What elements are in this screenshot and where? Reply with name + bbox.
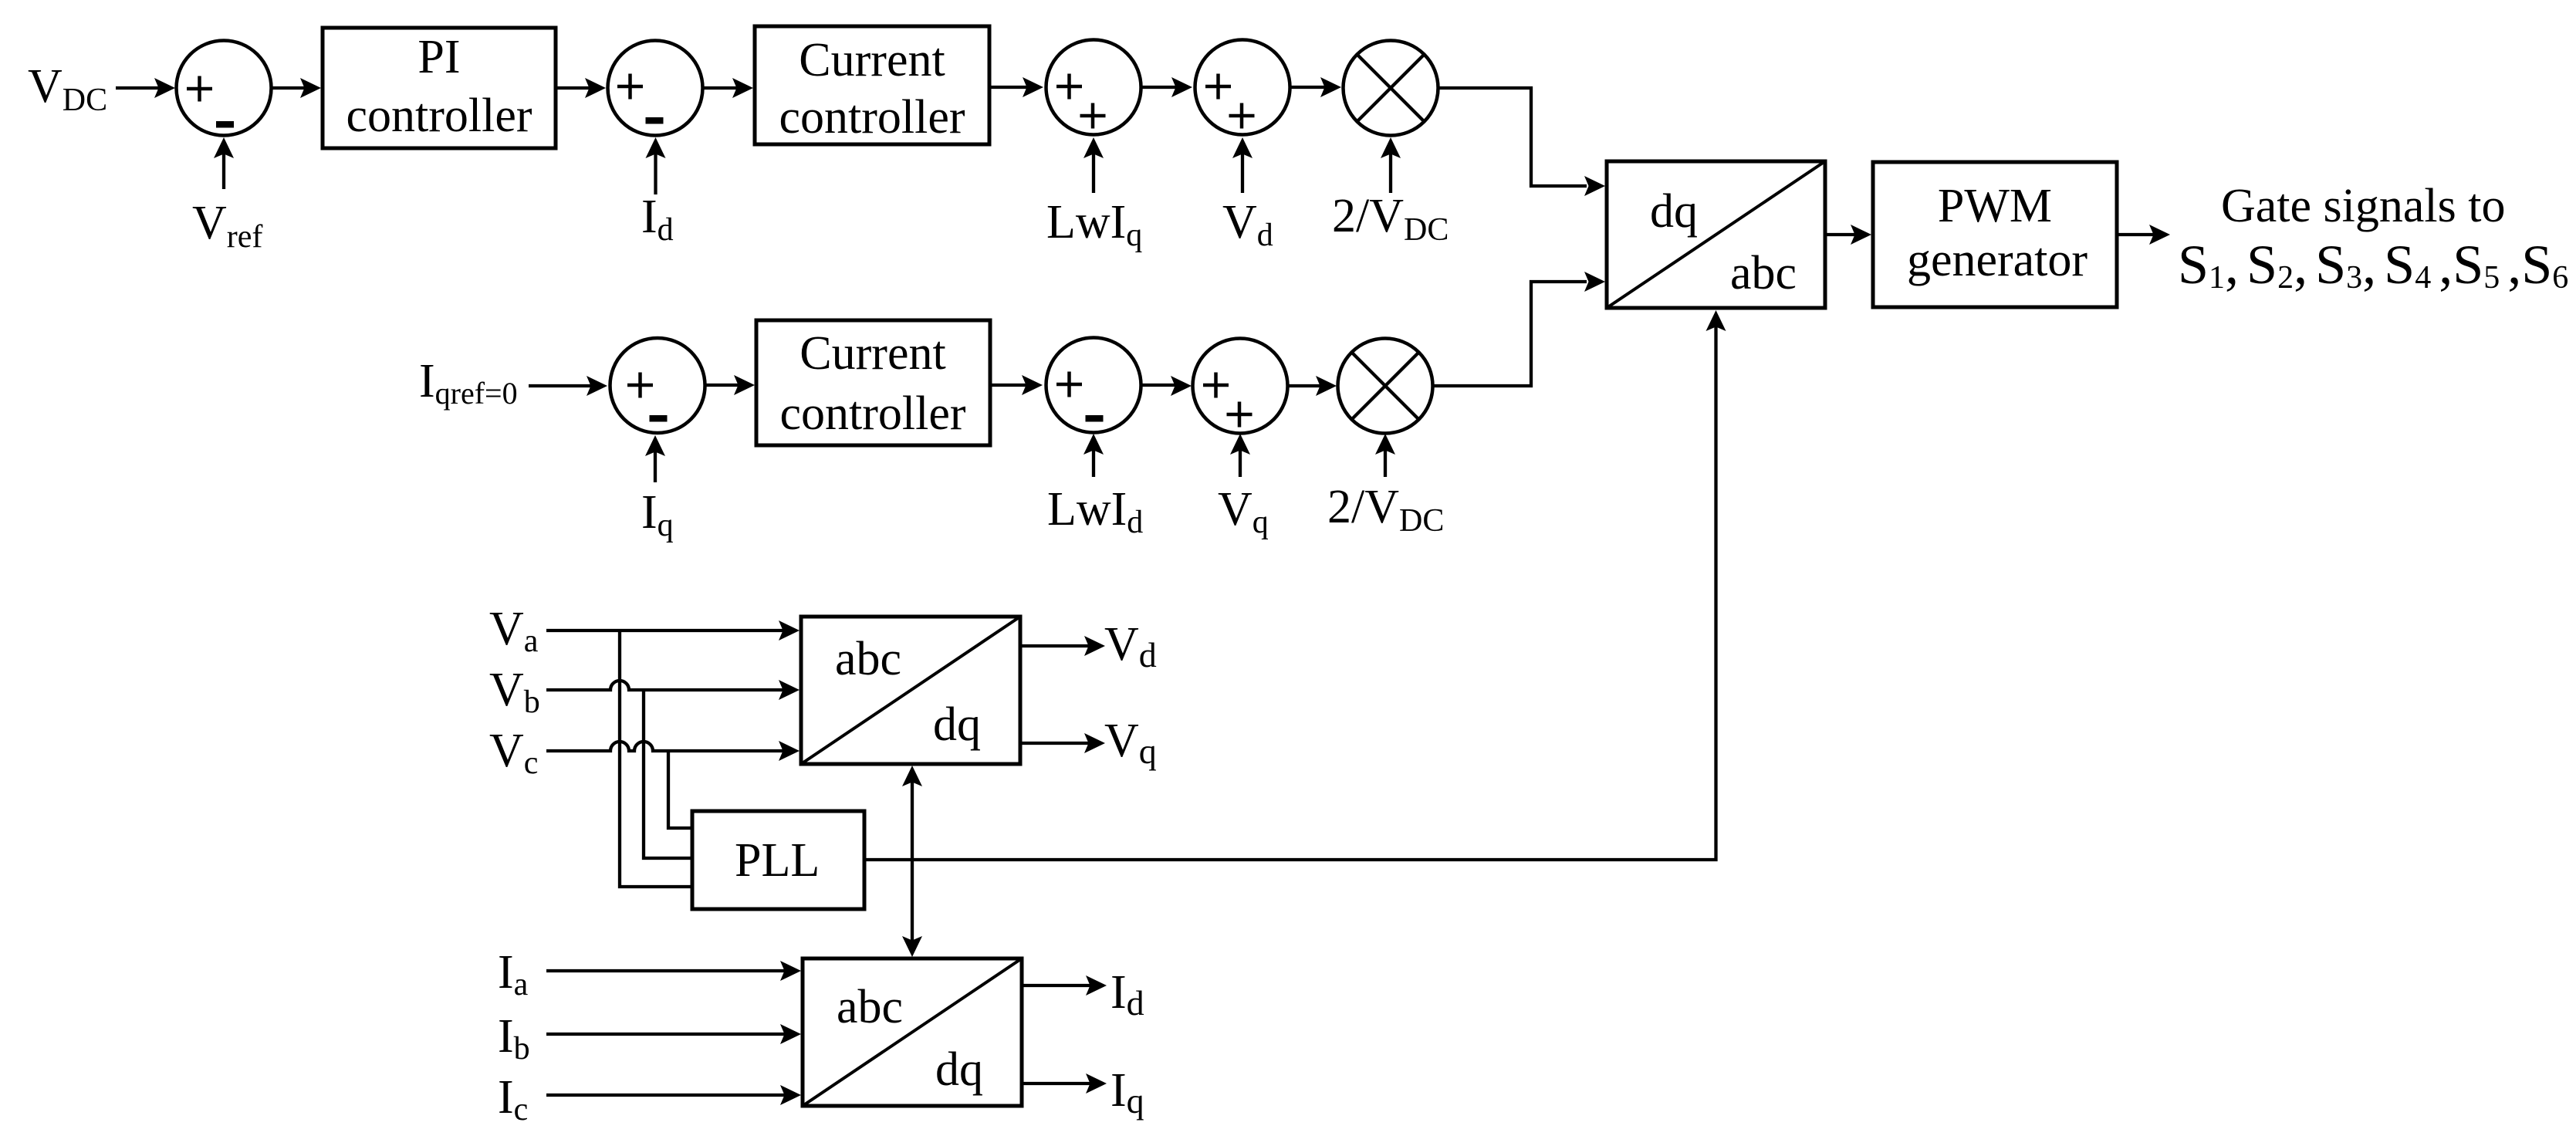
wire SC to multiplier M2 (1289, 384, 1330, 387)
svg-text:Vb: Vb (489, 664, 540, 720)
block PLL (692, 811, 864, 909)
svg-text:PI: PI (418, 31, 460, 83)
svg-text:VDC: VDC (28, 60, 107, 118)
node V_b label (489, 664, 540, 720)
node I_c label (498, 1071, 528, 1127)
wire tap V_a down to PLL (620, 630, 691, 887)
wire I_q into SA (654, 449, 657, 482)
multiplier M1 (1344, 41, 1438, 136)
svg-text:Vd: Vd (1104, 618, 1157, 674)
wire M1 to dq-abc transform (elbow) (1438, 88, 1587, 186)
wire V_ref into S1 (222, 142, 225, 189)
svg-text:Va: Va (489, 603, 539, 659)
svg-text:LwIq: LwIq (1046, 196, 1142, 253)
svg-text:Iq: Iq (641, 486, 674, 543)
wire theta double arrow between U2 and U3 (911, 778, 914, 945)
node I_a label (498, 946, 529, 1002)
wire I_qref to summer SA (529, 384, 593, 387)
wire PI controller to summer S2 (556, 86, 600, 90)
wire tap V_c down to PLL (668, 751, 691, 828)
node V_c label (489, 725, 538, 781)
summing junction SA (610, 338, 705, 433)
block PWM generator (1873, 162, 2117, 307)
summing junction SC (1193, 339, 1288, 434)
plus sign bottom in S3 (1080, 103, 1106, 129)
svg-text:Gate signals to: Gate signals to (2221, 180, 2506, 232)
wire current controller 1 to summer S3 (989, 86, 1038, 89)
block dq to abc transform U1 (1607, 161, 1825, 308)
node V_d output label (1104, 618, 1157, 674)
node V_q output label (1104, 715, 1157, 771)
node 2/VDC gain label (row 2) (1327, 481, 1444, 539)
svg-text:controller: controller (779, 91, 965, 144)
node I_q output label (1111, 1064, 1144, 1121)
wire SB to summer SC (1142, 384, 1185, 387)
summing junction S3 (1046, 40, 1141, 135)
svg-text:Iqref=0: Iqref=0 (419, 355, 518, 411)
svg-text:dq: dq (933, 698, 981, 751)
plus sign left in S4 (1205, 74, 1231, 100)
wire LwId into SB (1092, 440, 1095, 477)
plus sign bottom in SC (1227, 402, 1253, 428)
summing junction S4 (1195, 40, 1290, 135)
node I_b label (498, 1010, 530, 1067)
svg-text:PWM: PWM (1938, 180, 2052, 232)
block abc to dq transform U3 (current) (803, 958, 1022, 1106)
svg-text:Vc: Vc (489, 725, 538, 781)
wire V_c to abc-dq V transform (with two hops) (546, 742, 793, 751)
wire I_b to abc-dq I transform (546, 1033, 795, 1036)
minus sign in S1 (216, 121, 234, 128)
svg-text:Vd: Vd (1222, 196, 1273, 253)
wire M2 to dq-abc transform (elbow up) (1433, 282, 1587, 386)
summing junction SB (1046, 338, 1141, 433)
summing junction S2 (608, 41, 703, 136)
svg-text:Vref: Vref (192, 197, 262, 255)
multiplier M2 (1338, 339, 1433, 434)
wire 2/VDC into M2 (1384, 440, 1387, 477)
wire V_d output (1020, 644, 1099, 647)
wire I_c to abc-dq I transform (546, 1094, 795, 1097)
block PI controller (323, 28, 556, 148)
svg-text:Id: Id (641, 191, 674, 248)
svg-text:Current: Current (800, 327, 945, 380)
wire S4 to multiplier M1 (1290, 86, 1336, 89)
wire PWM generator output (2117, 233, 2155, 236)
svg-text:LwId: LwId (1047, 483, 1143, 540)
node V_a label (489, 603, 539, 659)
wire LwIq into S3 (1092, 142, 1095, 193)
wire I_a to abc-dq I transform (546, 969, 795, 972)
wire V_b to abc-dq V transform (with hop) (546, 681, 793, 690)
plus sign in SB (1056, 372, 1082, 397)
svg-text:abc: abc (1730, 247, 1797, 299)
node I_d output label (1111, 966, 1144, 1023)
svg-text:PLL: PLL (735, 834, 820, 887)
svg-text:Ib: Ib (498, 1010, 530, 1067)
svg-text:Iq: Iq (1111, 1064, 1144, 1121)
svg-text:Vq: Vq (1218, 483, 1269, 540)
wire V_DC to summer S1 (116, 86, 170, 90)
plus sign in S2 (617, 74, 643, 100)
wire V_a to abc-dq V transform (546, 629, 793, 632)
plus sign bottom in S4 (1229, 103, 1255, 129)
svg-text:controller: controller (779, 387, 965, 440)
svg-text:S1, S2, S3, S4 ,S5 ,S6: S1, S2, S3, S4 ,S5 ,S6 (2178, 234, 2568, 296)
svg-text:Ic: Ic (498, 1071, 528, 1127)
node V_DC input label (28, 60, 107, 118)
node Vq feedforward label (1218, 483, 1269, 540)
svg-text:abc: abc (837, 981, 903, 1033)
minus sign in SB (1086, 415, 1104, 422)
wire PLL theta to U1 (long feedback) (864, 319, 1716, 860)
svg-text:Id: Id (1111, 966, 1144, 1023)
wire I_d output (1022, 984, 1100, 987)
block Current controller (q-axis) (756, 320, 990, 445)
node LwId label (1047, 483, 1143, 540)
node 2/VDC gain label (1332, 190, 1449, 248)
block Current controller (d-axis) (755, 26, 989, 144)
wire S3 to summer S4 (1142, 86, 1187, 89)
node Vd feedforward label (1222, 196, 1273, 253)
node I_d feedback label (641, 191, 674, 248)
svg-text:Current: Current (799, 34, 945, 86)
svg-text:dq: dq (1650, 185, 1698, 238)
wire I_d into S2 (654, 142, 657, 194)
svg-text:generator: generator (1907, 234, 2088, 286)
node I_q feedback label (641, 486, 674, 543)
node V_ref label (192, 197, 262, 255)
wire tap V_b down to PLL (644, 690, 691, 858)
svg-text:Ia: Ia (498, 946, 529, 1002)
plus sign in S1 (187, 76, 212, 102)
plus sign left in S3 (1056, 74, 1082, 100)
wire current controller 2 to summer SB (990, 384, 1037, 387)
wire S2 to current controller 1 (703, 86, 748, 90)
node LwIq label (1046, 196, 1142, 253)
svg-text:2/VDC: 2/VDC (1332, 190, 1449, 248)
svg-text:dq: dq (935, 1043, 983, 1096)
wire U1 to PWM generator (1825, 233, 1865, 236)
wire V_q output (1020, 742, 1099, 745)
node gate signals output label (2178, 180, 2568, 296)
wire SA to current controller 2 (706, 384, 747, 387)
wire Vd feedforward into S4 (1241, 142, 1244, 193)
minus sign in S2 (646, 117, 664, 124)
summing junction S1 (177, 41, 272, 136)
svg-text:abc: abc (835, 633, 901, 685)
wire Vq feedforward into SC (1239, 440, 1242, 477)
node I_qref=0 input label (419, 355, 518, 411)
block abc to dq transform U2 (voltage) (801, 617, 1020, 764)
wire 2/VDC into M1 (1389, 142, 1392, 193)
minus sign in SA (650, 415, 668, 422)
plus sign in SA (627, 373, 653, 398)
svg-text:controller: controller (346, 90, 532, 142)
plus sign left in SC (1203, 373, 1229, 398)
svg-text:2/VDC: 2/VDC (1327, 481, 1444, 539)
wire I_q output (1022, 1082, 1100, 1085)
wire S1 to PI controller (272, 86, 316, 90)
svg-text:Vq: Vq (1104, 715, 1157, 771)
